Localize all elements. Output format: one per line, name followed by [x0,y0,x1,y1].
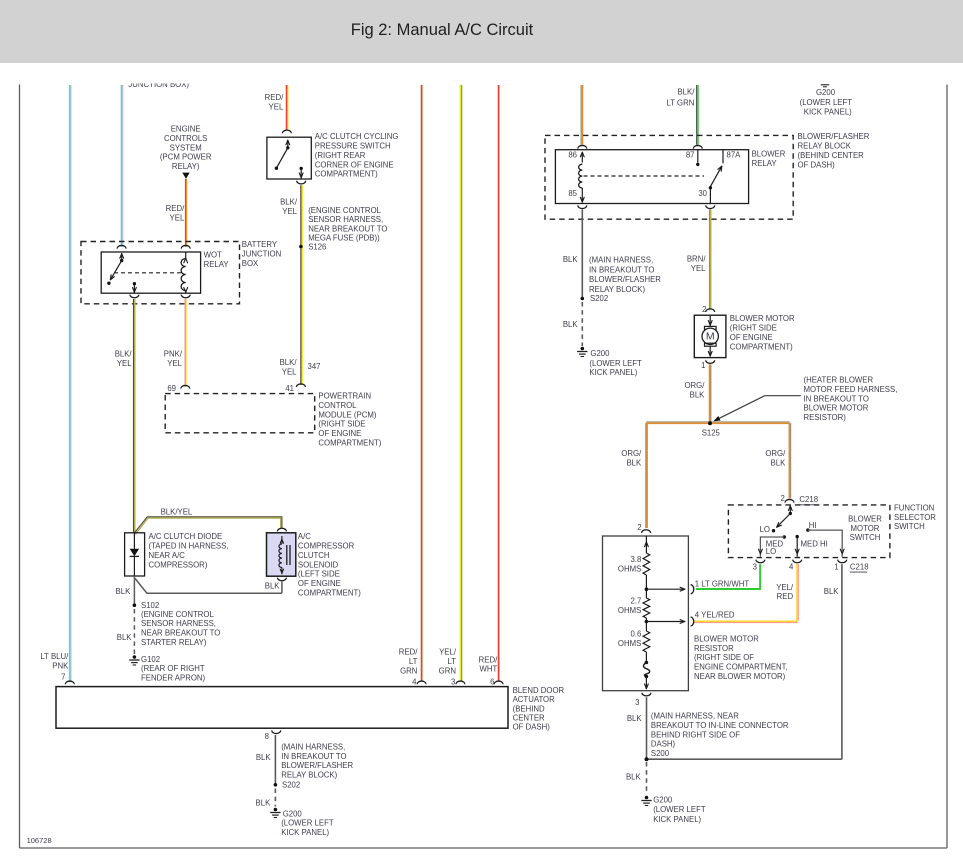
svg-text:0.6: 0.6 [630,630,641,639]
svg-text:RESISTOR): RESISTOR) [804,413,847,422]
svg-text:ORG/: ORG/ [621,449,642,458]
svg-text:ORG/: ORG/ [765,449,786,458]
svg-text:ORG/: ORG/ [684,381,705,390]
svg-text:BLK/: BLK/ [115,350,133,359]
svg-text:CLUTCH: CLUTCH [298,551,330,560]
svg-text:(ENGINE CONTROL: (ENGINE CONTROL [308,206,381,215]
svg-text:BLK: BLK [627,714,643,723]
svg-text:3.8: 3.8 [630,555,641,564]
svg-text:A/C CLUTCH CYCLING: A/C CLUTCH CYCLING [315,132,399,141]
svg-text:SENSOR HARNESS,: SENSOR HARNESS, [308,215,383,224]
svg-text:SOLENOID: SOLENOID [298,560,339,569]
svg-text:S102: S102 [141,601,159,610]
svg-text:CENTER: CENTER [513,714,545,723]
svg-text:BLOWER/FLASHER: BLOWER/FLASHER [798,132,870,141]
svg-text:(LEFT SIDE: (LEFT SIDE [298,570,340,579]
svg-text:BLOWER/FLASHER: BLOWER/FLASHER [281,761,353,770]
svg-text:(REAR OF RIGHT: (REAR OF RIGHT [141,664,205,673]
svg-text:KICK PANEL): KICK PANEL) [653,815,701,824]
svg-text:BLOWER/FLASHER: BLOWER/FLASHER [589,275,661,284]
svg-text:WOT: WOT [204,251,222,260]
svg-text:BLOWER: BLOWER [848,514,882,523]
svg-text:BLOWER: BLOWER [752,150,786,159]
svg-text:86: 86 [568,151,577,160]
svg-text:IN BREAKOUT TO: IN BREAKOUT TO [281,752,346,761]
svg-text:YEL/: YEL/ [776,583,794,592]
svg-text:ENGINE: ENGINE [171,125,201,134]
svg-text:C218: C218 [799,495,818,504]
svg-text:FUNCTION: FUNCTION [894,503,934,512]
svg-text:PRESSURE SWITCH: PRESSURE SWITCH [315,142,391,151]
svg-text:(MAIN HARNESS,: (MAIN HARNESS, [281,743,345,752]
svg-text:RED/: RED/ [166,204,185,213]
svg-text:RESISTOR: RESISTOR [694,644,734,653]
svg-text:OF DASH): OF DASH) [513,723,551,732]
svg-text:JUNCTION: JUNCTION [242,250,281,259]
svg-text:STARTER RELAY): STARTER RELAY) [141,638,207,647]
svg-text:ENGINE COMPARTMENT,: ENGINE COMPARTMENT, [694,663,788,672]
svg-text:(RIGHT REAR: (RIGHT REAR [315,151,366,160]
svg-text:BLK: BLK [256,753,272,762]
svg-text:OHMS: OHMS [618,639,641,648]
svg-text:(MAIN HARNESS,: (MAIN HARNESS, [589,256,653,265]
svg-text:CORNER OF ENGINE: CORNER OF ENGINE [315,160,394,169]
svg-text:RELAY BLOCK): RELAY BLOCK) [589,285,645,294]
svg-text:BREAKOUT TO IN-LINE CONNECTOR: BREAKOUT TO IN-LINE CONNECTOR [651,721,789,730]
svg-text:BEHIND RIGHT SIDE OF: BEHIND RIGHT SIDE OF [651,730,740,739]
svg-text:87: 87 [686,151,695,160]
svg-text:BLK: BLK [626,772,642,781]
svg-text:POWERTRAIN: POWERTRAIN [318,392,371,401]
svg-text:(ENGINE CONTROL: (ENGINE CONTROL [141,610,214,619]
svg-text:(PCM POWER: (PCM POWER [160,153,212,162]
svg-text:(LOWER LEFT: (LOWER LEFT [653,805,706,814]
svg-text:4 YEL/RED: 4 YEL/RED [695,611,735,620]
svg-text:CONTROL: CONTROL [318,401,357,410]
svg-text:COMPARTMENT): COMPARTMENT) [298,589,361,598]
svg-text:BLK: BLK [824,587,840,596]
svg-text:NEAR BLOWER MOTOR): NEAR BLOWER MOTOR) [694,672,786,681]
svg-text:COMPRESSOR: COMPRESSOR [298,542,355,551]
svg-text:RED/: RED/ [265,93,284,102]
svg-text:RELAY): RELAY) [172,162,200,171]
svg-text:LO: LO [766,547,776,556]
svg-text:1: 1 [834,562,838,571]
svg-text:30: 30 [698,189,707,198]
svg-text:SWITCH: SWITCH [894,522,925,531]
svg-text:BLK/: BLK/ [280,358,298,367]
svg-text:M: M [706,330,715,342]
svg-text:LT: LT [447,657,456,666]
svg-text:YEL/: YEL/ [439,648,457,657]
svg-text:4: 4 [789,562,794,571]
svg-text:ACTUATOR: ACTUATOR [513,695,556,704]
svg-text:MODULE (PCM): MODULE (PCM) [318,410,376,419]
svg-text:GRN: GRN [400,667,417,676]
svg-text:FENDER APRON): FENDER APRON) [141,673,206,682]
svg-text:A/C CLUTCH DIODE: A/C CLUTCH DIODE [149,532,223,541]
svg-text:PNK/: PNK/ [164,350,183,359]
svg-text:RED: RED [777,592,794,601]
svg-text:DASH): DASH) [651,740,676,749]
svg-text:OF ENGINE: OF ENGINE [730,333,773,342]
svg-text:BLK: BLK [265,581,281,590]
svg-text:6: 6 [490,678,494,687]
svg-text:BLOWER MOTOR: BLOWER MOTOR [804,404,869,413]
svg-text:2: 2 [637,523,641,532]
svg-text:WHT: WHT [480,665,498,674]
svg-text:LT GRN: LT GRN [667,98,695,107]
svg-text:2: 2 [781,494,785,503]
svg-text:BLOWER MOTOR: BLOWER MOTOR [730,314,795,323]
svg-text:4: 4 [412,678,417,687]
svg-text:3: 3 [451,678,455,687]
svg-text:LT BLU/: LT BLU/ [40,652,69,661]
svg-text:KICK PANEL): KICK PANEL) [281,828,329,837]
svg-text:NEAR BREAKOUT TO: NEAR BREAKOUT TO [141,629,220,638]
svg-text:BLK/YEL: BLK/YEL [161,507,193,516]
svg-text:(BEHIND CENTER: (BEHIND CENTER [798,151,865,160]
svg-text:(LOWER LEFT: (LOWER LEFT [589,359,642,368]
svg-text:347: 347 [308,362,321,371]
svg-text:OHMS: OHMS [618,564,641,573]
svg-text:KICK PANEL): KICK PANEL) [589,368,637,377]
svg-text:GRN: GRN [439,667,456,676]
svg-text:RELAY BLOCK: RELAY BLOCK [798,142,852,151]
svg-text:IN BREAKOUT TO: IN BREAKOUT TO [589,265,654,274]
svg-text:KICK PANEL): KICK PANEL) [804,107,852,116]
svg-text:(RIGHT SIDE: (RIGHT SIDE [318,420,365,429]
svg-text:3: 3 [753,562,757,571]
svg-text:G102: G102 [141,655,160,664]
svg-text:RED/: RED/ [399,648,418,657]
svg-text:NEAR BREAKOUT TO: NEAR BREAKOUT TO [308,224,387,233]
svg-text:SELECTOR: SELECTOR [894,513,936,522]
svg-text:MOTOR: MOTOR [851,524,880,533]
svg-text:YEL: YEL [170,213,185,222]
svg-text:3: 3 [635,698,639,707]
svg-text:OF ENGINE: OF ENGINE [318,429,361,438]
svg-text:RELAY: RELAY [752,159,778,168]
svg-text:A/C: A/C [298,532,311,541]
svg-text:BLK/: BLK/ [280,197,298,206]
svg-text:LT: LT [409,657,418,666]
svg-text:(MAIN HARNESS, NEAR: (MAIN HARNESS, NEAR [651,712,739,721]
svg-text:BLEND DOOR: BLEND DOOR [513,686,565,695]
svg-text:BATTERY: BATTERY [242,240,278,249]
svg-text:YEL: YEL [167,359,182,368]
svg-text:NEAR A/C: NEAR A/C [149,551,186,560]
svg-text:COMPARTMENT): COMPARTMENT) [730,343,793,352]
svg-text:G200: G200 [653,796,673,805]
svg-text:OHMS: OHMS [618,606,641,615]
svg-text:SWITCH: SWITCH [850,533,881,542]
svg-text:85: 85 [568,189,577,198]
svg-text:RELAY: RELAY [204,260,230,269]
svg-text:S202: S202 [590,294,608,303]
svg-text:1: 1 [701,361,705,370]
svg-text:2: 2 [702,305,706,314]
svg-text:COMPRESSOR): COMPRESSOR) [149,560,208,569]
svg-text:OF ENGINE: OF ENGINE [298,579,341,588]
svg-text:(HEATER BLOWER: (HEATER BLOWER [804,376,874,385]
svg-text:(RIGHT SIDE OF: (RIGHT SIDE OF [694,653,754,662]
svg-text:SYSTEM: SYSTEM [170,143,202,152]
svg-text:MOTOR FEED HARNESS,: MOTOR FEED HARNESS, [804,385,898,394]
svg-text:G200: G200 [816,88,836,97]
svg-text:BLK: BLK [690,391,706,400]
svg-text:7: 7 [61,673,65,682]
svg-text:C218: C218 [850,562,869,571]
svg-text:SENSOR HARNESS,: SENSOR HARNESS, [141,619,216,628]
svg-text:S125: S125 [702,428,721,437]
svg-text:MED HI: MED HI [801,539,828,548]
svg-text:YEL: YEL [282,368,297,377]
svg-text:(BEHIND: (BEHIND [513,704,545,713]
svg-text:BLK: BLK [771,459,787,468]
svg-text:BLOWER MOTOR: BLOWER MOTOR [694,634,759,643]
svg-text:BLK: BLK [563,320,579,329]
svg-text:OF DASH): OF DASH) [798,161,836,170]
svg-text:(TAPED IN HARNESS,: (TAPED IN HARNESS, [149,542,229,551]
svg-text:LO: LO [760,525,770,534]
svg-text:(LOWER LEFT: (LOWER LEFT [281,818,334,827]
svg-text:BLK/: BLK/ [677,88,695,97]
svg-text:YEL: YEL [282,207,297,216]
svg-text:2.7: 2.7 [630,597,641,606]
svg-text:BLK: BLK [626,459,642,468]
svg-text:HI: HI [809,521,817,530]
svg-text:S126: S126 [308,243,326,252]
svg-text:S202: S202 [282,781,300,790]
svg-text:BLK: BLK [116,587,132,596]
svg-text:G200: G200 [283,810,303,819]
svg-text:BLK: BLK [256,799,272,808]
svg-text:87A: 87A [727,151,742,160]
svg-text:1 LT GRN/WHT: 1 LT GRN/WHT [695,579,750,588]
svg-text:106728: 106728 [27,836,52,845]
svg-text:BRN/: BRN/ [687,255,706,264]
svg-text:BLK: BLK [117,633,133,642]
svg-text:YEL: YEL [269,102,284,111]
svg-text:PNK: PNK [52,661,69,670]
svg-text:MEGA FUSE (PDB)): MEGA FUSE (PDB)) [308,234,380,243]
svg-text:IN BREAKOUT TO: IN BREAKOUT TO [804,394,869,403]
svg-text:G200: G200 [590,349,610,358]
svg-text:YEL: YEL [117,359,132,368]
svg-text:(RIGHT SIDE: (RIGHT SIDE [730,324,777,333]
svg-text:BOX: BOX [242,259,259,268]
svg-text:YEL: YEL [691,264,706,273]
svg-text:(LOWER LEFT: (LOWER LEFT [800,98,853,107]
svg-text:S200: S200 [651,749,670,758]
svg-text:41: 41 [285,384,294,393]
svg-text:RELAY BLOCK): RELAY BLOCK) [281,771,337,780]
svg-text:BLK: BLK [563,255,579,264]
svg-text:69: 69 [167,384,176,393]
svg-text:8: 8 [265,732,269,741]
svg-text:RED/: RED/ [479,655,498,664]
svg-text:COMPARTMENT): COMPARTMENT) [315,170,378,179]
svg-text:CONTROLS: CONTROLS [164,134,207,143]
svg-text:COMPARTMENT): COMPARTMENT) [318,439,381,448]
